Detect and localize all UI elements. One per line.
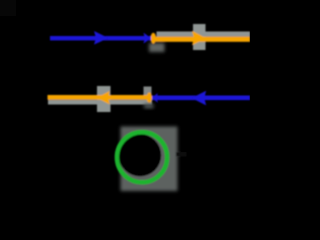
wire: bottom orange segment: [48, 95, 152, 100]
node: green circle: [117, 132, 167, 182]
tail dot of bottom orange vector: [147, 92, 152, 102]
arrowhead of top blue vector (head at junction, pointing right): [144, 33, 152, 44]
dark dash on right edge of gray patch: [176, 152, 187, 157]
wire: bottom blue segment: [152, 96, 250, 101]
arrowhead of bottom blue vector (midpoint, pointing left): [192, 91, 207, 106]
ghost gray band along top orange segment: [157, 32, 251, 37]
ghost gray band along bottom orange segment: [48, 100, 152, 105]
black interior of circle: [119, 134, 161, 176]
wire: top blue segment: [50, 36, 151, 40]
tail dot of top orange vector: [151, 33, 156, 44]
gray handle blob below top junction: [149, 43, 165, 52]
arrowhead of bottom blue vector (head at junction, pointing left): [152, 93, 158, 103]
arrowhead of top orange vector (midpoint, pointing right): [192, 31, 206, 45]
gray smudge below bottom junction: [144, 104, 154, 109]
arrowhead of bottom orange vector (midpoint, pointing left): [96, 91, 110, 104]
gray handle blob above bottom junction: [144, 87, 152, 97]
wire: top orange segment: [152, 37, 250, 42]
gray square patch behind circle: [121, 127, 178, 192]
ghost gray cross bar at bottom orange arrow: [97, 86, 111, 112]
arrowhead of top blue vector (midpoint, pointing right): [94, 31, 108, 45]
faint corner patch: [0, 0, 16, 16]
ghost gray cross bar at top orange arrow: [193, 24, 206, 50]
